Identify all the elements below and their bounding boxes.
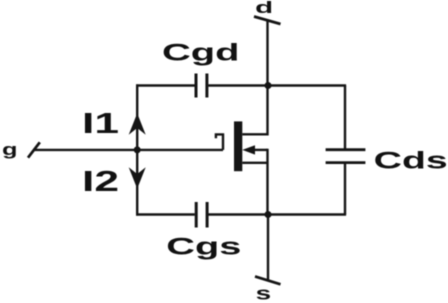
wire: bottom rail left segment (gate node to Cgs) bbox=[136, 213, 195, 215]
node: source junction dot bbox=[265, 211, 272, 218]
svg-text:I2: I2 bbox=[82, 166, 119, 198]
wire: top rail left segment (gate node to Cgd) bbox=[136, 84, 195, 86]
label s (source terminal) bbox=[256, 283, 272, 303]
capacitor Cgs plates bbox=[196, 202, 207, 228]
capacitor Cgd plates bbox=[196, 74, 207, 98]
svg-text:Cgd: Cgd bbox=[162, 40, 240, 67]
terminal slash at drain bbox=[254, 17, 281, 25]
label I2 bbox=[82, 166, 119, 198]
wire: right branch upper vertical (drain node to Cds) bbox=[344, 86, 346, 150]
wire: gate lead bbox=[33, 149, 223, 151]
wire: top rail right segment (Cgd to drain node to right branch) bbox=[208, 84, 346, 86]
node: gate junction dot bbox=[134, 146, 141, 153]
transistor M1 source lead bbox=[242, 149, 267, 216]
svg-text:s: s bbox=[256, 283, 272, 303]
arrow I2 (current down) bbox=[129, 167, 146, 189]
terminal slash at source bbox=[255, 276, 281, 284]
svg-text:d: d bbox=[255, 0, 273, 17]
label Cgd bbox=[162, 40, 240, 67]
label g (gate terminal) bbox=[2, 140, 18, 159]
label d (drain terminal) bbox=[255, 0, 273, 17]
terminal slash at gate bbox=[28, 142, 40, 157]
wire: drain terminal lead bbox=[266, 20, 268, 86]
wire: left branch vertical bbox=[136, 84, 138, 215]
svg-text:I1: I1 bbox=[82, 108, 119, 140]
wire: right branch lower vertical (Cds to source node) bbox=[344, 163, 346, 215]
wire: source terminal lead bbox=[267, 215, 269, 281]
svg-text:Cds: Cds bbox=[374, 147, 448, 174]
svg-text:g: g bbox=[2, 140, 18, 159]
transistor M1 channel bar bbox=[234, 121, 242, 171]
svg-text:Cgs: Cgs bbox=[166, 234, 241, 261]
node: drain junction dot bbox=[265, 82, 272, 89]
arrow I1 (current up) bbox=[129, 113, 146, 135]
label Cds bbox=[374, 147, 448, 174]
label Cgs bbox=[166, 234, 241, 261]
transistor M1 gate electrode hook bbox=[216, 134, 223, 150]
wire: bottom rail right segment (Cgs to source node to right branch) bbox=[208, 213, 346, 215]
transistor M1 drain lead bbox=[242, 86, 267, 134]
capacitor Cds plates bbox=[326, 150, 366, 163]
transistor M1 body arrow (points to channel) bbox=[242, 145, 267, 154]
label I1 bbox=[82, 108, 119, 140]
